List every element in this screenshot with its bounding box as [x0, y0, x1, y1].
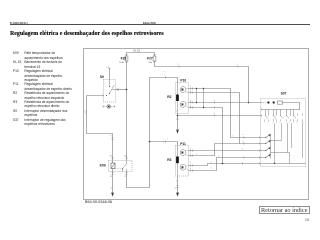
- svg-text:2: 2: [211, 168, 212, 170]
- wire: F27 feed across top to S37: [155, 61, 249, 103]
- return-to-index button: [259, 206, 311, 214]
- svg-text:3: 3: [190, 162, 191, 164]
- svg-text:4: 4: [190, 105, 191, 107]
- fuse F27: [153, 56, 156, 61]
- mirror unit P10 box: [176, 83, 189, 114]
- svg-text:2: 2: [267, 122, 268, 124]
- schematic frame: [84, 49, 309, 200]
- svg-text:1: 1: [190, 148, 191, 150]
- svg-text:F27: F27: [147, 56, 153, 60]
- fuse F28: [125, 56, 128, 61]
- wire: common return to S37: [178, 115, 262, 117]
- svg-text:P11: P11: [180, 142, 186, 146]
- wire C from P10 to S37: [189, 102, 262, 104]
- header text center: [143, 21, 156, 25]
- svg-text:K09: K09: [100, 163, 106, 167]
- P11 wire 1 to S37: [189, 150, 266, 152]
- R3 return to ground: [177, 176, 179, 193]
- K09 ground wire: [112, 172, 114, 193]
- S9 switch box: [104, 80, 116, 103]
- wire B from P10 to S37: [189, 93, 266, 144]
- P10 motor leads: [186, 89, 189, 108]
- svg-text:2: 2: [190, 91, 191, 93]
- svg-text:5: 5: [280, 122, 281, 124]
- svg-text:2: 2: [196, 153, 197, 155]
- page number: [305, 218, 309, 222]
- svg-text:1: 1: [164, 74, 165, 76]
- S37 wiper cluster: [270, 134, 272, 159]
- svg-text:1: 1: [163, 142, 164, 144]
- svg-text:85: 85: [110, 176, 112, 178]
- relay K09 box: [109, 161, 133, 172]
- svg-text:5: 5: [214, 113, 215, 115]
- page title: [10, 31, 164, 37]
- svg-text:8: 8: [110, 135, 111, 137]
- K09 coil: [111, 163, 115, 169]
- svg-text:KL 15: KL 15: [134, 50, 141, 53]
- svg-text:4: 4: [211, 162, 212, 164]
- svg-text:1: 1: [237, 64, 238, 66]
- svg-text:2: 2: [190, 153, 191, 155]
- K09 output loop to heater feed riser: [127, 78, 178, 188]
- svg-text:4: 4: [190, 168, 191, 170]
- header rule: [10, 24, 311, 25]
- svg-text:3: 3: [242, 149, 243, 151]
- svg-text:a: a: [243, 134, 244, 136]
- P11 wire 3 to S37: [189, 164, 306, 166]
- svg-text:4: 4: [218, 156, 219, 158]
- svg-text:4: 4: [276, 122, 277, 124]
- resistor R2: [176, 95, 179, 102]
- svg-text:2: 2: [176, 181, 177, 183]
- svg-text:31: 31: [175, 188, 177, 190]
- svg-text:6: 6: [286, 122, 287, 124]
- node: heater riser to R3 branch: [149, 141, 151, 143]
- S37 selector output loop: [262, 103, 300, 110]
- svg-text:2: 2: [176, 111, 177, 113]
- S9 switch contacts: [110, 80, 116, 94]
- svg-text:87: 87: [125, 176, 127, 178]
- svg-text:86: 86: [110, 156, 112, 158]
- heater path through P10: [177, 83, 179, 114]
- bridge wires at P10 output: [197, 89, 204, 108]
- svg-text:S9: S9: [100, 75, 104, 79]
- svg-text:7,5 A: 7,5 A: [119, 61, 125, 64]
- P10 motor 1: [180, 87, 186, 93]
- S37 lower collectors: [271, 123, 282, 140]
- S9 right output to F28 line: [116, 89, 127, 91]
- S37 bus drops: [266, 110, 294, 114]
- P11 motor 1: [180, 150, 186, 156]
- S37 contact row: [266, 114, 303, 116]
- wire: R3 feed branch: [150, 142, 178, 146]
- svg-text:x: x: [164, 71, 165, 73]
- ground arrow for R2 return: [176, 130, 179, 134]
- svg-text:8: 8: [293, 122, 294, 124]
- node: F27 feed joins wire C: [248, 102, 250, 104]
- svg-text:P10: P10: [180, 79, 186, 83]
- lamp in S9: [103, 106, 116, 108]
- svg-text:1: 1: [190, 86, 191, 88]
- svg-text:9: 9: [297, 122, 298, 124]
- wire D from P10 to S37: [189, 108, 223, 164]
- wire: F28 drop from bus: [126, 53, 128, 57]
- wire A from P10 to S37: [189, 89, 266, 138]
- node: S9 output on F28 line: [126, 89, 128, 91]
- connector tick pairs at P11 outputs: [191, 150, 193, 172]
- header text left: [10, 21, 28, 25]
- svg-text:x: x: [164, 139, 165, 141]
- resistor R3: [176, 157, 179, 164]
- svg-text:R2: R2: [167, 95, 171, 99]
- svg-text:S37: S37: [281, 91, 287, 95]
- svg-text:1: 1: [232, 136, 233, 138]
- svg-text:x 15: x 15: [106, 67, 109, 69]
- component legend list: [13, 51, 91, 126]
- svg-text:5 A: 5 A: [149, 61, 153, 64]
- P11 wire 2 to S37: [189, 144, 240, 156]
- svg-text:1: 1: [264, 122, 265, 124]
- svg-text:7: 7: [289, 122, 290, 124]
- svg-text:1: 1: [167, 139, 168, 141]
- P11 motor 2: [180, 164, 186, 170]
- P11 motor leads: [186, 151, 189, 171]
- P11 wire 4 to S37: [189, 158, 266, 171]
- wire: F27 drop from bus: [154, 53, 156, 57]
- heater path through P11: [177, 146, 179, 177]
- svg-text:10: 10: [302, 122, 304, 124]
- svg-text:ws: ws: [85, 113, 87, 115]
- svg-text:R3: R3: [167, 158, 171, 162]
- P10 motor 2: [180, 102, 186, 108]
- wire: F28 output down to K09: [126, 61, 128, 161]
- mirror unit P11 box: [176, 146, 189, 177]
- svg-text:F28: F28: [121, 56, 127, 60]
- svg-text:31: 31: [111, 188, 113, 190]
- svg-text:3: 3: [190, 100, 191, 102]
- svg-text:3: 3: [273, 122, 274, 124]
- S9 top lead: [109, 69, 111, 80]
- wire: KL15 bus: [127, 52, 155, 54]
- switch unit S37 box: [261, 99, 306, 167]
- svg-text:3: 3: [214, 100, 215, 102]
- connector tick pairs at P10 outputs: [191, 88, 193, 109]
- diagram number label: [85, 200, 112, 204]
- K09 contact: [123, 161, 128, 172]
- S37 selector knob: [262, 102, 267, 104]
- node: wire D joins wire 3 line: [222, 163, 224, 165]
- svg-text:b: b: [243, 141, 244, 143]
- ground arrow under P11: [176, 193, 179, 197]
- R2 return to ground arrow: [177, 114, 179, 130]
- svg-text:30: 30: [124, 156, 126, 158]
- ground arrow under K09: [111, 193, 114, 197]
- K09 terminal ticks: [112, 157, 128, 174]
- node: common return junction: [177, 115, 179, 117]
- svg-text:2: 2: [178, 64, 179, 66]
- S9 left wire down to K09: [87, 96, 113, 161]
